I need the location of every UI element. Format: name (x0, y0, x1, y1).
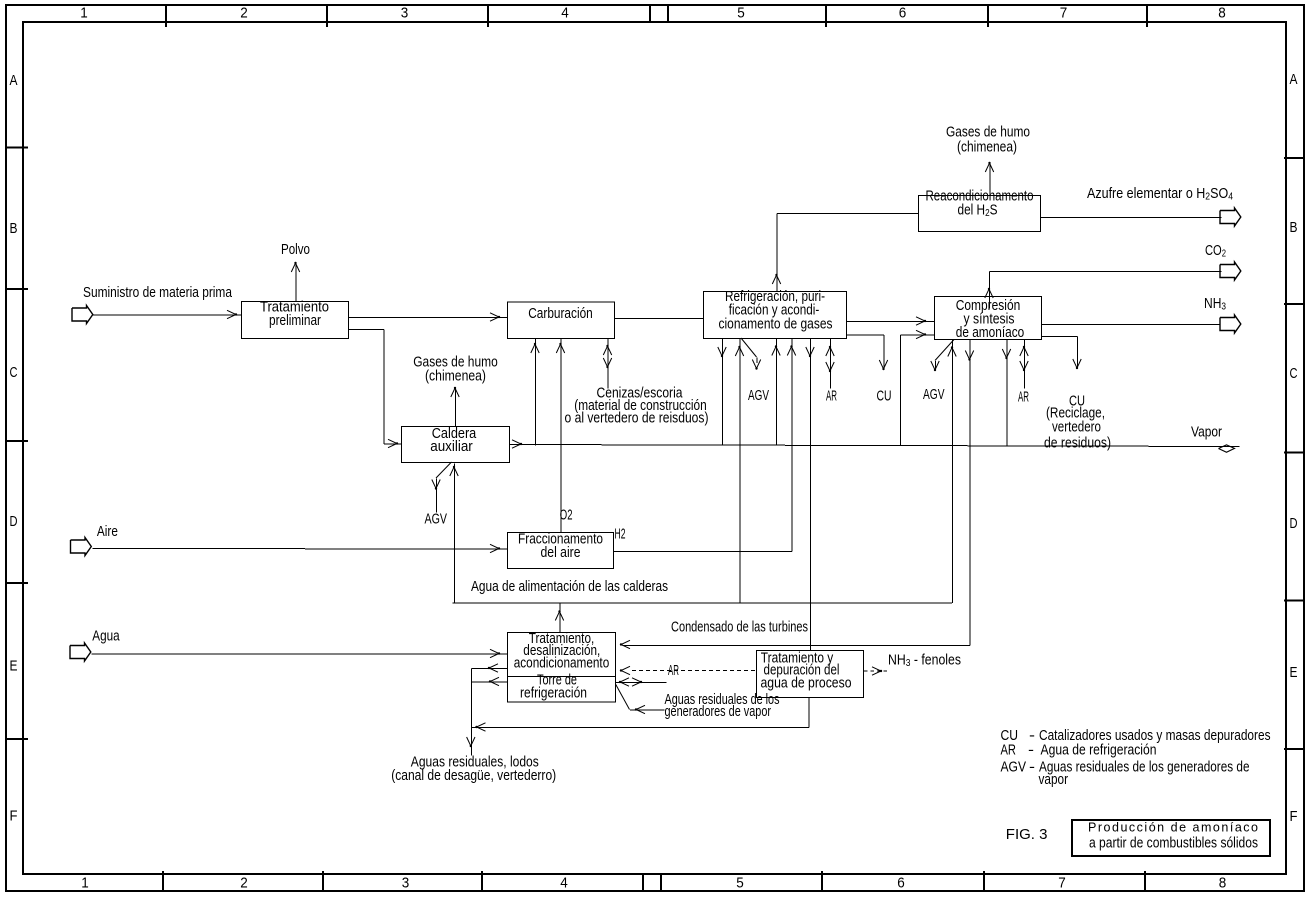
svg-text:-: - (1029, 760, 1035, 776)
svg-text:generadores de vapor: generadores de vapor (665, 704, 772, 720)
svg-text:acondicionamento: acondicionamento (514, 656, 610, 672)
svg-text:AR: AR (1001, 743, 1017, 759)
svg-text:5: 5 (737, 5, 745, 22)
svg-text:E: E (1290, 664, 1298, 681)
svg-text:A: A (10, 72, 18, 89)
svg-text:Aire: Aire (97, 524, 118, 540)
svg-text:AR: AR (1018, 390, 1029, 406)
svg-text:Producción de amoníaco: Producción de amoníaco (1088, 821, 1258, 835)
svg-text:C: C (10, 364, 18, 381)
svg-text:refrigeración: refrigeración (520, 686, 587, 702)
svg-text:7: 7 (1060, 5, 1068, 22)
svg-text:8: 8 (1218, 5, 1226, 22)
svg-text:agua de proceso: agua de proceso (761, 676, 852, 692)
svg-text:cionamento de gases: cionamento de gases (719, 317, 833, 333)
svg-text:de amoníaco: de amoníaco (956, 325, 1025, 341)
svg-text:AR: AR (826, 389, 837, 405)
svg-text:CU: CU (877, 389, 892, 405)
svg-text:o al vertedero de reisduos): o al vertedero de reisduos) (565, 411, 709, 427)
svg-text:AR: AR (668, 663, 679, 679)
svg-text:6: 6 (899, 5, 907, 22)
svg-text:5: 5 (736, 875, 744, 892)
svg-text:(canal de desagüe, vertederro): (canal de desagüe, vertederro) (391, 768, 556, 784)
svg-text:Polvo: Polvo (281, 242, 310, 258)
svg-text:3: 3 (402, 875, 410, 892)
svg-text:1: 1 (81, 875, 89, 892)
svg-text:F: F (10, 808, 18, 825)
svg-text:O2: O2 (560, 508, 573, 524)
svg-text:E: E (10, 658, 18, 675)
svg-text:Condensado de las turbines: Condensado de las turbines (671, 620, 808, 636)
svg-text:vertedero: vertedero (1052, 420, 1101, 436)
svg-text:1: 1 (80, 5, 88, 22)
svg-text:CO2: CO2 (1205, 243, 1226, 260)
svg-text:auxiliar: auxiliar (430, 439, 473, 455)
svg-text:F: F (1290, 808, 1298, 825)
svg-text:Aguas residuales de los genera: Aguas residuales de los generadores de (1039, 760, 1250, 776)
svg-text:2: 2 (240, 5, 248, 22)
svg-text:Azufre elementar o H2SO4: Azufre elementar o H2SO4 (1087, 186, 1233, 203)
svg-text:3: 3 (401, 5, 409, 22)
svg-text:8: 8 (1219, 875, 1227, 892)
svg-text:Gases de humo: Gases de humo (946, 125, 1030, 141)
svg-text:NH3: NH3 (1204, 296, 1226, 313)
svg-text:a partir de combustibles sólid: a partir de combustibles sólidos (1089, 835, 1258, 852)
svg-text:AGV: AGV (1001, 760, 1027, 776)
svg-text:Agua de refrigeración: Agua de refrigeración (1041, 743, 1157, 759)
svg-text:(chimenea): (chimenea) (425, 369, 486, 385)
svg-text:B: B (1290, 219, 1298, 236)
svg-text:NH3 - fenoles: NH3 - fenoles (888, 653, 961, 670)
svg-text:7: 7 (1058, 875, 1066, 892)
svg-text:H2: H2 (615, 527, 626, 543)
svg-text:AGV: AGV (923, 387, 945, 403)
svg-text:4: 4 (560, 875, 568, 892)
svg-text:-: - (1028, 743, 1034, 759)
svg-text:Vapor: Vapor (1191, 425, 1222, 441)
svg-text:C: C (1290, 365, 1298, 382)
svg-text:Agua: Agua (92, 629, 120, 645)
svg-text:D: D (1290, 515, 1298, 532)
svg-text:preliminar: preliminar (269, 313, 321, 329)
svg-text:del aire: del aire (541, 545, 581, 561)
svg-text:AGV: AGV (748, 388, 769, 404)
svg-text:de residuos): de residuos) (1044, 436, 1111, 452)
svg-text:D: D (10, 513, 18, 530)
svg-text:6: 6 (897, 875, 905, 892)
svg-text:Suministro de materia prima: Suministro de materia prima (83, 285, 233, 301)
svg-text:A: A (1290, 71, 1298, 88)
svg-text:B: B (10, 220, 18, 237)
svg-text:del H2S: del H2S (958, 203, 998, 220)
svg-text:Carburación: Carburación (528, 306, 593, 322)
svg-text:FIG. 3: FIG. 3 (1006, 826, 1048, 843)
svg-text:(chimenea): (chimenea) (957, 140, 1017, 156)
svg-text:Agua de alimentación de las ca: Agua de alimentación de las calderas (471, 579, 668, 595)
svg-text:AGV: AGV (425, 512, 448, 528)
svg-text:2: 2 (240, 875, 248, 892)
svg-text:vapor: vapor (1039, 772, 1069, 788)
svg-text:4: 4 (561, 5, 569, 22)
